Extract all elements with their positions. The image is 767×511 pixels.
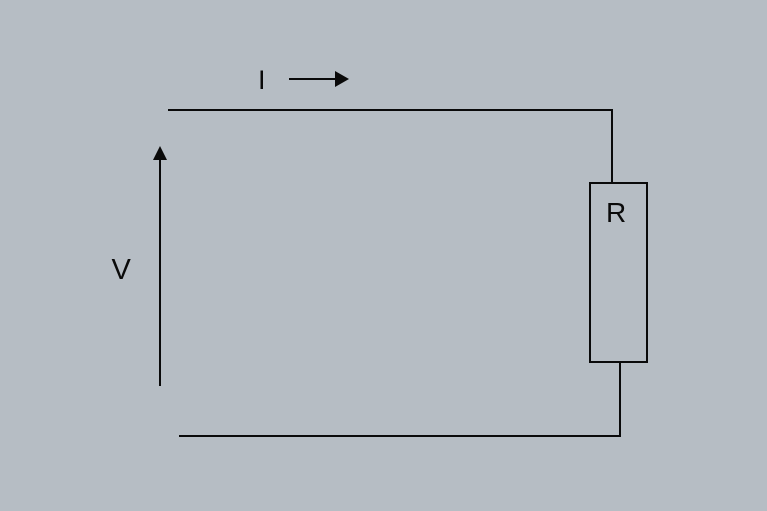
svg-text:V: V — [112, 254, 132, 286]
svg-text:R: R — [606, 197, 626, 228]
svg-text:I: I — [258, 65, 266, 95]
